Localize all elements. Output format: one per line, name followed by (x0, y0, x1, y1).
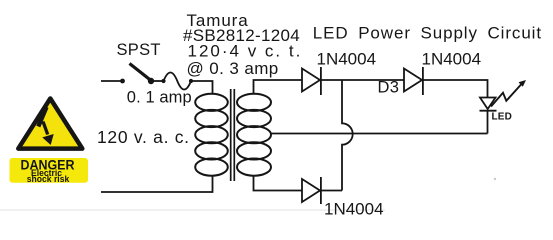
node switch pivot (148, 78, 154, 84)
svg-text:LED: LED (492, 112, 513, 123)
wire secondary bottom to D2 (254, 176, 303, 191)
LED (480, 98, 497, 111)
node fuse right (189, 79, 193, 83)
wire D1 to D3 (top rail) (321, 79, 404, 81)
wire fuse to transformer primary (191, 81, 213, 94)
svg-text:120·4 v c. t.: 120·4 v c. t. (188, 42, 303, 61)
danger warning sign (10, 99, 89, 185)
wire junction down with hop over center tap (342, 80, 353, 191)
transformer T1 secondary winding (237, 94, 271, 176)
wire D2 to junction riser (321, 190, 342, 192)
diode D1 1N4004 (302, 67, 321, 95)
svg-text:1N4004: 1N4004 (324, 200, 384, 219)
svg-text:1N4004: 1N4004 (317, 49, 377, 68)
wire LED cathode to rail (487, 111, 489, 134)
transformer T1 primary winding (195, 94, 228, 176)
node switch input (120, 79, 125, 84)
svg-text:D3: D3 (378, 78, 400, 96)
switch SPST arm (130, 64, 152, 81)
LED light emission arrow (491, 84, 522, 107)
danger label plate (10, 158, 89, 183)
fuse F1 0.1 amp (164, 73, 192, 90)
wire primary bottom return (101, 176, 213, 192)
scan artifact faint line (0, 209, 385, 211)
wire AC hot lead (101, 80, 122, 82)
svg-text:shock risk: shock risk (27, 174, 70, 184)
node fuse left (161, 79, 165, 83)
diode D2 1N4004 (302, 177, 321, 204)
svg-text:SPST: SPST (117, 41, 161, 59)
scan artifact faint speck (494, 178, 496, 180)
wire secondary top to D1 (254, 80, 303, 94)
wire D3 to LED (423, 80, 488, 97)
svg-text:@ 0. 3 amp: @ 0. 3 amp (187, 59, 279, 78)
svg-text:120 v. a. c.: 120 v. a. c. (97, 127, 190, 147)
lightning bolt (38, 107, 46, 127)
svg-text:LED Power Supply Circuit: LED Power Supply Circuit (313, 24, 542, 43)
diode D3 1N4004 (404, 67, 423, 95)
transformer T1 core (230, 89, 232, 181)
svg-text:1N4004: 1N4004 (422, 50, 482, 69)
wire switch to fuse (151, 80, 164, 82)
svg-text:0. 1 amp: 0. 1 amp (127, 88, 192, 106)
warning triangle (18, 99, 82, 149)
wire center tap rail (271, 133, 488, 135)
